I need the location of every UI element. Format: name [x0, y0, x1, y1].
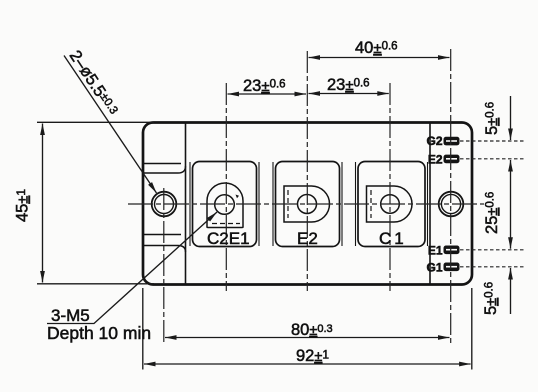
svg-text:Depth 10 min: Depth 10 min: [47, 323, 151, 343]
svg-text:G2: G2: [426, 134, 442, 148]
svg-text:C1: C1: [379, 229, 407, 248]
svg-text:E2: E2: [428, 153, 443, 167]
svg-text:G1: G1: [426, 261, 442, 275]
svg-text:C2E1: C2E1: [207, 229, 250, 248]
svg-text:E2: E2: [297, 229, 318, 248]
svg-text:E1: E1: [428, 244, 443, 258]
